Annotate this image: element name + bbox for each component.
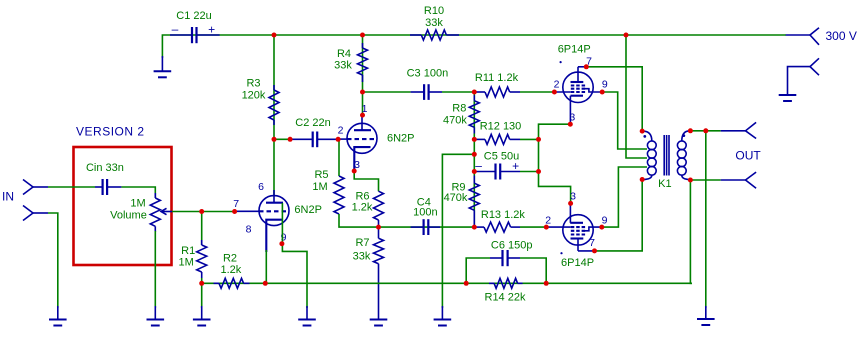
node anode upper <box>584 64 589 69</box>
wire B+ drop to transformer tap <box>626 35 647 158</box>
node OUT gnd tap <box>703 128 708 133</box>
wire R1 to ground <box>201 278 203 308</box>
svg-text:33k: 33k <box>425 17 443 29</box>
svg-text:33k: 33k <box>353 251 371 263</box>
wire R3 to C2 node <box>274 138 290 140</box>
node gnd tap <box>472 152 477 157</box>
svg-text:1.2k: 1.2k <box>221 264 242 276</box>
svg-text:1.2k: 1.2k <box>352 202 373 214</box>
svg-text:R10: R10 <box>424 5 444 17</box>
pentode 6P14P upper <box>554 67 602 124</box>
node C3 R8 R11 <box>472 90 477 95</box>
svg-text:C2 22n: C2 22n <box>295 117 330 129</box>
ground at IN lower <box>49 306 67 326</box>
capacitor Cin <box>95 179 121 195</box>
svg-text:OUT: OUT <box>735 148 761 162</box>
node screen lower <box>599 225 604 230</box>
resistor R14 <box>489 278 523 288</box>
wire feedback to secondary bottom <box>690 180 692 283</box>
connector OUT lower <box>721 172 756 188</box>
svg-text:100n: 100n <box>413 207 437 219</box>
wire secondary bottom to OUT <box>690 179 720 181</box>
wire anode upper to primary top <box>586 67 642 131</box>
resistor R11 <box>474 87 520 97</box>
node C3 anode <box>360 90 365 95</box>
svg-text:6: 6 <box>258 181 264 193</box>
phase dot primary <box>643 135 646 138</box>
node R1 R2 <box>199 281 204 286</box>
capacitor C4 <box>411 219 440 235</box>
svg-text:Volume: Volume <box>110 209 147 221</box>
node C5 left <box>472 169 477 174</box>
svg-text:C5 50u: C5 50u <box>484 150 519 162</box>
transformer core <box>664 135 669 176</box>
wire cathode V1b to R6 <box>354 171 378 191</box>
wire cathode bus upper <box>539 124 571 203</box>
resistor R10 <box>410 30 459 40</box>
node grid lower <box>544 225 549 230</box>
pentode 6P14P lower <box>546 203 602 251</box>
svg-text:33k: 33k <box>334 60 352 72</box>
node C6 R14 left <box>464 281 469 286</box>
wire top rail 300V <box>162 35 786 58</box>
svg-text:120k: 120k <box>242 89 266 101</box>
ground at shield V1a <box>298 306 316 326</box>
svg-text:1M: 1M <box>130 198 145 210</box>
resistor R9 <box>469 176 479 227</box>
connector IN upper <box>23 180 48 195</box>
node C4 R9 R13 <box>472 225 477 230</box>
svg-text:7: 7 <box>233 198 239 210</box>
svg-text:C6 150p: C6 150p <box>491 240 533 252</box>
svg-text:7: 7 <box>589 237 595 249</box>
resistor R4 <box>358 43 368 82</box>
node cathode V1b <box>352 169 357 174</box>
svg-text:R13 1.2k: R13 1.2k <box>481 209 526 221</box>
wire anode lower to primary bottom <box>595 180 643 251</box>
svg-text:R2: R2 <box>223 252 237 264</box>
node C6 R14 right <box>544 281 549 286</box>
wire wiper to grid of 6N2P V1a <box>172 211 235 213</box>
svg-text:2: 2 <box>545 214 551 226</box>
svg-text:3: 3 <box>570 191 576 203</box>
ground at pot <box>147 306 165 326</box>
wire OUT top ground drop <box>705 131 707 308</box>
node grid upper <box>552 90 557 95</box>
resistor R6 <box>374 191 384 227</box>
connector 0V <box>788 58 820 95</box>
ground at C1 <box>154 56 172 77</box>
wire cathode rail R2 node <box>202 282 266 284</box>
svg-text:3: 3 <box>569 111 575 123</box>
phase dot secondary <box>682 134 685 137</box>
svg-text:K1: K1 <box>658 178 671 190</box>
node R12 right <box>536 137 541 142</box>
node grid V1a <box>232 209 237 214</box>
node R12 left <box>472 137 477 142</box>
svg-text:R14 22k: R14 22k <box>485 292 526 304</box>
node R1 top <box>199 209 204 214</box>
svg-text:+: + <box>208 23 215 37</box>
wire cathode feedback rail <box>265 282 692 284</box>
resistor R2 <box>214 278 250 288</box>
svg-text:470k: 470k <box>443 114 467 126</box>
svg-text:R5: R5 <box>314 169 328 181</box>
node primary bottom <box>640 177 645 182</box>
node primary top <box>640 129 645 134</box>
node anode lower <box>592 248 597 253</box>
svg-text:8: 8 <box>246 223 252 235</box>
svg-text:VERSION 2: VERSION 2 <box>76 125 145 139</box>
wire cathode V1a to R2 node <box>265 250 267 283</box>
resistor R8 <box>469 95 479 133</box>
node R2 cathode <box>263 281 268 286</box>
node rail R4 <box>360 33 365 38</box>
wire C6 right to R14 right <box>520 258 546 283</box>
ground at 0V connector <box>779 95 797 101</box>
resistor R3 <box>269 85 279 125</box>
svg-text:–: – <box>172 22 179 36</box>
capacitor C6 <box>490 250 520 266</box>
svg-text:6N2P: 6N2P <box>387 133 415 145</box>
node secondary bottom <box>688 178 693 183</box>
svg-text:470k: 470k <box>444 192 468 204</box>
wire C3 to R8/R11 node <box>442 91 474 93</box>
node C5 right <box>536 169 541 174</box>
connector IN lower <box>23 206 48 221</box>
resistor R13 <box>474 222 520 232</box>
wire C6/R14 feedback bracket <box>466 258 490 283</box>
node R3 C2 <box>272 137 277 142</box>
node R6 R7 tail <box>376 225 381 230</box>
svg-text:R4: R4 <box>337 48 351 60</box>
svg-text:C1 22u: C1 22u <box>176 10 211 22</box>
svg-text:6N2P: 6N2P <box>294 204 322 216</box>
svg-text:2: 2 <box>338 125 344 137</box>
connector OUT upper <box>721 122 756 138</box>
wire ground tap from R8/C5 node <box>442 154 474 308</box>
resistor R12 <box>474 134 520 144</box>
wire screen upper to UL tap <box>602 92 647 149</box>
resistor R7 <box>374 227 384 319</box>
svg-text:IN: IN <box>2 190 14 204</box>
wire Cin to pot <box>121 187 155 198</box>
node cathode lower <box>568 201 573 206</box>
wire shield pin9 V1a to ground <box>282 203 307 308</box>
resistor R1 <box>197 240 207 278</box>
svg-text:6P14P: 6P14P <box>561 257 594 269</box>
wire grid node to R5 <box>338 139 340 176</box>
svg-text:R7: R7 <box>355 237 369 249</box>
wire R4 anode chain <box>362 35 364 116</box>
wire IN upper to Cin <box>48 186 95 188</box>
svg-text:R8: R8 <box>452 103 466 115</box>
wire R13 to grid lower 6P14P <box>520 226 546 228</box>
node cathode upper <box>568 122 573 127</box>
ground at R7 <box>370 320 388 326</box>
node pin1 V1b <box>360 113 365 118</box>
ground at R1 <box>193 306 211 326</box>
node rail B+ <box>624 33 629 38</box>
node grid V1b <box>336 137 341 142</box>
wire stage2 plate line to C4 <box>379 226 475 228</box>
ground at OUT <box>697 306 715 325</box>
svg-text:300 V: 300 V <box>826 29 857 43</box>
svg-text:R1: R1 <box>181 245 195 257</box>
svg-text:9: 9 <box>602 79 608 91</box>
wire R8 R9 vertical chain <box>473 92 475 227</box>
svg-text:9: 9 <box>602 214 608 226</box>
triode 6N2P V1b <box>338 116 377 171</box>
capacitor C3 <box>411 84 442 100</box>
wire pot to ground <box>154 231 156 308</box>
svg-text:R11 1.2k: R11 1.2k <box>475 72 519 84</box>
wire secondary top to OUT <box>690 130 720 132</box>
svg-text:Cin 33n: Cin 33n <box>86 162 124 174</box>
svg-text:2: 2 <box>554 79 560 91</box>
node screen upper <box>600 90 605 95</box>
ground at C5 tap <box>434 306 452 326</box>
wire R12 to cathode bus <box>520 138 539 140</box>
wire screen lower to UL tap <box>602 167 647 227</box>
marker dot lower 6P14P <box>560 252 562 254</box>
capacitor C5 <box>474 159 520 180</box>
node C2 left pin <box>288 137 293 142</box>
node rail R3 <box>272 33 277 38</box>
connector 300V <box>786 28 819 45</box>
transformer K1 primary <box>643 131 656 179</box>
wire C5 to cathode bus <box>520 171 539 173</box>
svg-text:C3 100n: C3 100n <box>407 67 449 79</box>
resistor R5 <box>334 176 344 214</box>
marker dot upper 6P14P <box>560 61 562 63</box>
potentiometer 1M Volume <box>150 193 172 232</box>
svg-text:1M: 1M <box>179 257 194 269</box>
svg-text:R12 130: R12 130 <box>480 120 522 132</box>
svg-text:6P14P: 6P14P <box>558 44 591 56</box>
wire R1 drop <box>201 212 203 246</box>
wire R11 to grid upper 6P14P <box>520 91 554 93</box>
node secondary top <box>688 128 693 133</box>
capacitor C2 <box>290 132 338 148</box>
node shield V1a <box>279 241 284 246</box>
wire R5 bottom to tail node <box>339 214 379 227</box>
wire R3 plate chain <box>273 35 275 196</box>
wire C3 line from anode V1b <box>363 91 411 93</box>
capacitor C1 <box>170 22 220 43</box>
svg-text:1M: 1M <box>312 181 327 193</box>
svg-text:R3: R3 <box>246 78 260 90</box>
red box version 2 <box>74 147 172 265</box>
triode 6N2P V1a <box>235 190 289 252</box>
transformer K1 secondary <box>677 131 689 180</box>
wire IN lower to ground <box>48 213 58 308</box>
